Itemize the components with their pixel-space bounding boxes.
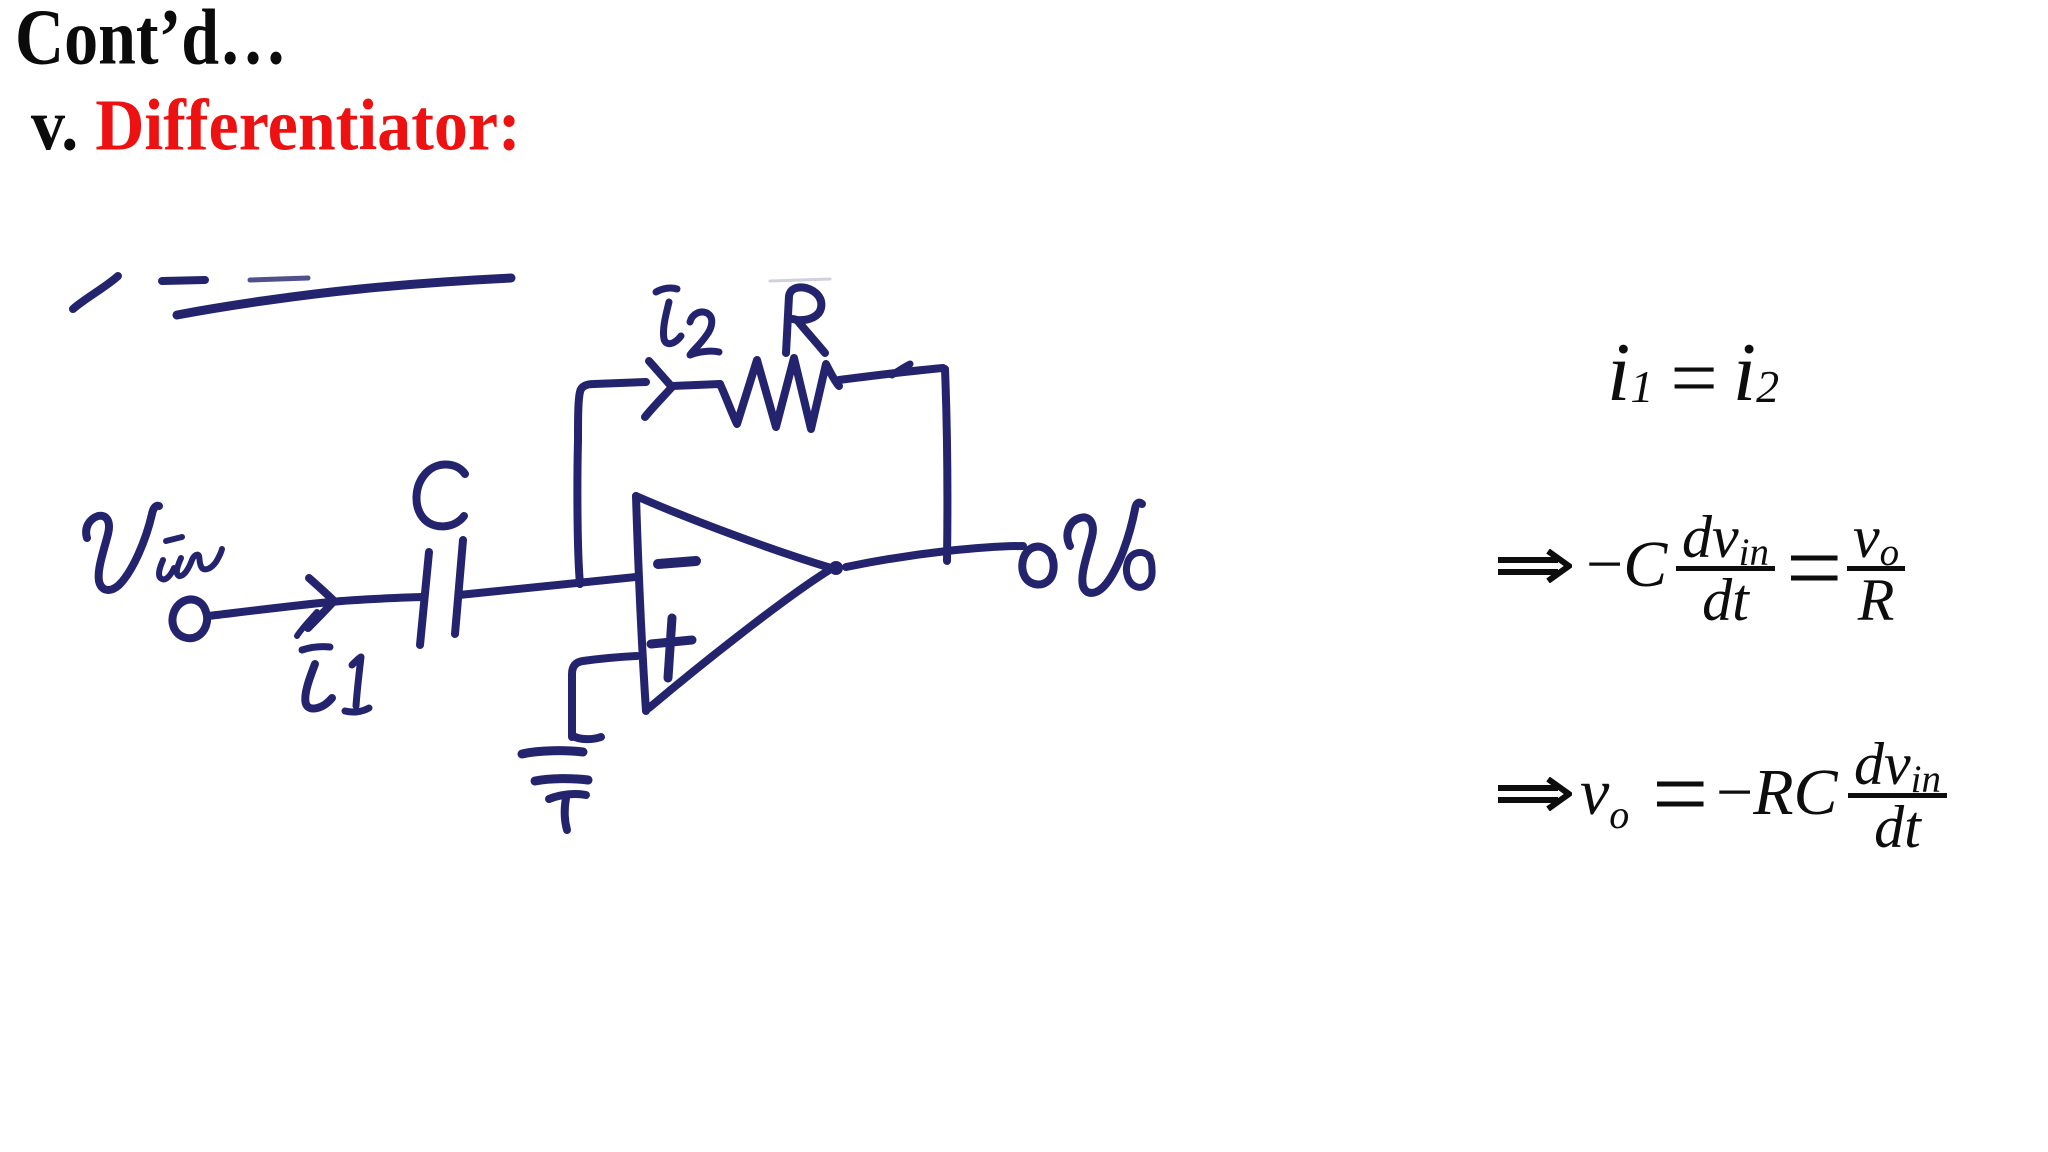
capacitor C: right plate <box>455 540 463 634</box>
label Vo: subscript o <box>1126 552 1152 587</box>
label i2: subscript 2 <box>690 312 719 355</box>
scribble dash 2 <box>250 278 308 280</box>
label Vo (script V) <box>1067 503 1142 593</box>
op-amp U1: left edge <box>636 496 646 711</box>
wire: feedback right vertical down <box>945 369 947 561</box>
equation 3: equals <box>1652 744 1708 844</box>
label Vin: 'i' of subscript in <box>159 560 174 579</box>
scribble dash 1 <box>162 280 205 281</box>
wire: non-inverting input to ground <box>572 656 637 737</box>
equation 2 fraction dvin/dt <box>1676 513 1775 625</box>
capacitor C: left plate <box>420 552 429 645</box>
equation 3 arrow (implies) <box>1496 777 1572 811</box>
equation 2 term: -C <box>1586 532 1667 598</box>
arrowhead on feedback wire (i2 direction) <box>645 361 672 417</box>
equation 2: equals <box>1786 518 1842 618</box>
input terminal circle <box>172 599 207 638</box>
label Vin (script V) <box>86 506 159 590</box>
label i1: subscript 1 <box>345 657 369 712</box>
equation 2 arrow (implies) <box>1496 549 1572 583</box>
label i1: bar accent <box>302 647 330 650</box>
op-amp U1: bottom edge <box>649 569 831 708</box>
ground tail vertical <box>565 798 567 830</box>
arrowhead extra flick <box>297 612 317 636</box>
op-amp U1: minus sign <box>658 561 696 564</box>
label Vin: 'n' of subscript in <box>177 549 222 576</box>
scribble faint dash right <box>770 279 830 281</box>
label Vin: 'i' dash accent <box>166 537 182 541</box>
ground tail dash <box>549 794 586 799</box>
wire: resistor to right corner <box>839 368 943 380</box>
heading Cont'd... <box>15 0 287 83</box>
label C (above capacitor) <box>416 464 465 526</box>
label i1: i body <box>305 664 332 709</box>
equation 2 fraction vo/R <box>1847 513 1905 625</box>
wire: output from apex to terminal <box>846 546 1023 567</box>
wire: input from terminal to capacitor <box>208 597 421 616</box>
op-amp U1: plus sign <box>651 618 692 678</box>
label R (above resistor) <box>786 287 825 353</box>
op-amp U1: top edge <box>636 496 831 568</box>
label i2: i hat <box>656 288 677 292</box>
equation 3 term: -RC <box>1716 760 1838 826</box>
equation 3 fraction dvin/dt <box>1848 740 1947 852</box>
wire: capacitor to op-amp inverting input <box>459 577 636 595</box>
label i2: i body <box>663 302 681 344</box>
arrowhead on input wire (i1 direction) <box>308 578 334 628</box>
heading v. Differentiator: <box>31 83 521 168</box>
wire: ground foot bar <box>573 736 601 739</box>
equation 1: i1 = i2 <box>1607 331 1779 421</box>
resistor R zigzag <box>720 358 839 429</box>
wire: feedback riser (up from inverting node) <box>577 382 646 584</box>
op-amp U1: output blob <box>829 561 843 575</box>
scribble stroke (cropped handwriting, slash) <box>73 276 118 309</box>
ground bar 1 <box>522 751 583 754</box>
wire: feedback top to resistor <box>672 384 720 386</box>
scribble long underline stroke <box>177 278 511 315</box>
ground bar 2 <box>535 779 588 781</box>
small tick arrowhead near corner <box>892 364 910 375</box>
output terminal circle <box>1022 547 1053 585</box>
equation 3 term: vo = -RC <box>1580 760 1629 835</box>
